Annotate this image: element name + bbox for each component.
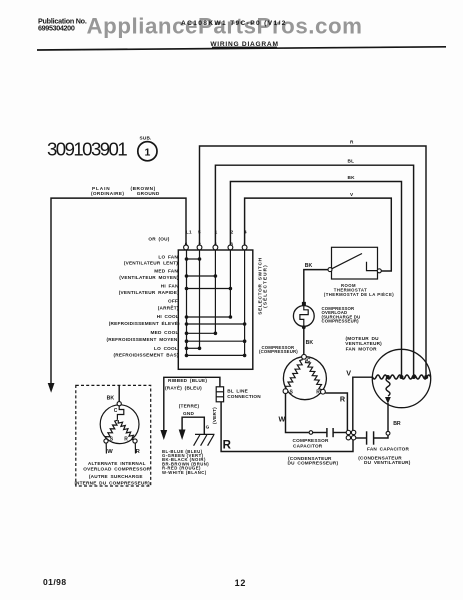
svg-text:(REFROIDISSEMENT BAS): (REFROIDISSEMENT BAS) [113,353,178,358]
svg-text:G: G [206,425,210,430]
svg-text:1: 1 [144,146,150,158]
svg-text:GROUND: GROUND [137,191,160,196]
svg-text:W: W [279,414,286,423]
terminal pin numbers bottom row [185,241,247,246]
svg-text:(THERMOSTAT DE LA PIÈCE): (THERMOSTAT DE LA PIÈCE) [324,292,394,297]
thermostat box [332,247,378,279]
svg-text:(ORDINAIRE): (ORDINAIRE) [91,191,124,196]
wire BL line [215,165,413,376]
header rule [37,47,446,50]
svg-text:RIBBED (BLUE): RIBBED (BLUE) [168,378,207,383]
wire to capacitor [313,432,327,434]
wire V junction to fan motor [353,377,373,430]
svg-text:(REFROIDISSEMENT MOYEN): (REFROIDISSEMENT MOYEN) [106,337,179,342]
svg-text:BL: BL [348,159,355,164]
selector junction dots [185,257,247,357]
svg-text:DU COMPRESSEUR): DU COMPRESSEUR) [288,461,339,466]
svg-text:C: C [114,408,118,414]
svg-text:(RAYÉ) (BLEU): (RAYÉ) (BLEU) [165,384,202,391]
svg-text:R: R [124,437,128,443]
svg-text:(VERT): (VERT) [212,407,217,424]
svg-text:BK: BK [348,175,356,180]
svg-text:SUB.: SUB. [140,136,152,141]
ground wire with plug arrow [182,417,204,434]
node compressor capacitor terminal [309,431,313,435]
svg-text:COMPRESSOR: COMPRESSOR [293,438,329,443]
wire R from compressor to junction [325,393,347,430]
arrow left plug prong [48,383,55,393]
alternate compressor dashed box [76,385,151,486]
svg-text:2: 2 [231,230,234,235]
svg-text:R: R [340,395,346,404]
svg-text:R: R [316,390,320,396]
wire BK overload to compressor [303,327,305,354]
svg-text:BK: BK [305,263,313,269]
svg-text:5: 5 [198,230,201,235]
svg-text:BL LINE: BL LINE [227,388,248,393]
svg-text:R: R [223,440,232,452]
svg-text:HI COOL: HI COOL [157,314,179,319]
svg-text:12: 12 [235,578,247,588]
selector internal rows [187,258,200,260]
svg-text:HI FAN: HI FAN [161,284,179,289]
wire R line [200,146,427,377]
line connection splice [216,387,261,402]
selector switch box [178,250,253,369]
svg-text:BK: BK [107,396,115,402]
svg-text:INTERNE DU COMPRESSEUR): INTERNE DU COMPRESSEUR) [74,480,150,485]
junction cluster [346,430,356,440]
svg-text:1: 1 [215,230,218,235]
svg-text:OFF: OFF [168,298,178,303]
wire color legend [162,449,209,475]
thermostat contacts [328,268,332,272]
svg-text:(ARRÊT): (ARRÊT) [158,304,179,311]
labels plain/brown ground [91,186,160,196]
svg-text:CAPACITOR: CAPACITOR [293,443,323,448]
svg-text:(COMPRESSEUR): (COMPRESSEUR) [259,349,298,354]
svg-text:(VENTILATEUR MOYEN): (VENTILATEUR MOYEN) [119,275,179,280]
svg-text:(VENTILATEUR RAPIDE): (VENTILATEUR RAPIDE) [119,290,179,295]
header publication number [38,16,87,32]
ground symbol [194,434,215,445]
sub circle 1 [138,136,157,161]
alternate compressor labels [74,461,150,486]
svg-text:(AUTRE SURCHARGE: (AUTRE SURCHARGE [89,474,143,479]
overload protector [293,302,314,329]
svg-text:(MOTEUR DU: (MOTEUR DU [346,336,380,341]
fan capacitor row [356,437,367,439]
wire BK line [230,182,401,377]
svg-text:(VENTILATEUR LENT): (VENTILATEUR LENT) [124,260,178,265]
selector switch vertical label [258,257,268,315]
svg-text:COMPRESSEUR): COMPRESSEUR) [322,319,360,324]
svg-text:FAN CAPACITOR: FAN CAPACITOR [367,446,409,451]
wire ground brown: top horizontal + left drop with arrow [51,198,186,385]
svg-text:MED FAN: MED FAN [154,268,178,273]
svg-text:BR: BR [393,421,401,427]
wire V line to thermostat [245,198,392,271]
compressor capacitor [326,428,328,437]
svg-text:OVERLOAD COMPRESSOR: OVERLOAD COMPRESSOR [83,467,150,472]
title WIRING DIAGRAM [210,41,278,48]
svg-text:LO COOL: LO COOL [154,346,178,351]
svg-text:(TERRE): (TERRE) [179,404,200,409]
svg-text:R: R [350,140,354,145]
svg-text:BK: BK [306,340,314,346]
compressor [283,354,326,399]
svg-text:W: W [107,449,113,455]
wire BK into alternate compressor [118,385,120,401]
svg-text:FAN MOTOR: FAN MOTOR [346,346,378,351]
svg-text:GND: GND [183,411,194,416]
wire ribbed blue to plug [164,377,220,432]
overload labels [322,306,361,324]
svg-text:L1: L1 [186,230,192,235]
svg-text:C: C [307,358,311,364]
wire BK thermostat to overload [304,270,328,306]
svg-text:6995304200: 6995304200 [38,24,75,33]
svg-text:DU VENTILATEUR): DU VENTILATEUR) [364,460,411,465]
wire bottom red run [221,402,353,452]
svg-text:(REFROIDISSEMENT ÉLEVÉ): (REFROIDISSEMENT ÉLEVÉ) [109,319,180,326]
terminal pin numbers top row [186,230,247,235]
svg-text:ALTERNATE INTERNAL: ALTERNATE INTERNAL [88,461,146,466]
svg-text:309103901: 309103901 [47,138,127,159]
alternate compressor [100,402,140,455]
node fan cap terminal [386,431,390,435]
svg-text:MED COOL: MED COOL [150,330,178,335]
svg-text:(SÉLECTEUR): (SÉLECTEUR) [261,264,268,308]
svg-text:AC108KW1 T9C-P0 (V1/2: AC108KW1 T9C-P0 (V1/2 [181,20,287,27]
wire W from compressor S [286,394,309,433]
svg-text:V: V [346,368,351,377]
selector left labels [106,254,180,357]
svg-text:4: 4 [244,230,247,235]
fan motor [372,349,430,407]
svg-text:01/98: 01/98 [43,577,67,587]
wire BR up to fan motor [387,403,389,431]
svg-text:CONNECTION: CONNECTION [227,394,261,399]
svg-text:LO FAN: LO FAN [158,254,178,259]
svg-text:OR (OU): OR (OU) [148,236,169,241]
terminal circles on selector [184,245,189,250]
svg-text:W-WHITE (BLANC): W-WHITE (BLANC) [162,470,207,475]
selector internal verticals [186,250,188,355]
